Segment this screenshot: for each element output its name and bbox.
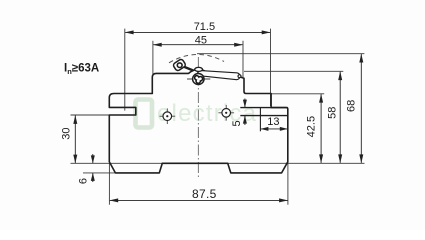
dimension 68 line bbox=[360, 54, 362, 163]
svg-text:6: 6 bbox=[78, 178, 90, 184]
svg-text:45: 45 bbox=[195, 35, 207, 47]
screw head crosshair ticks bbox=[187, 78, 210, 80]
dimension 87.5 line bbox=[110, 199, 288, 201]
svg-text:71.5: 71.5 bbox=[194, 21, 215, 33]
lever knob bbox=[172, 58, 186, 71]
svg-text:5: 5 bbox=[231, 120, 243, 126]
terminal screw right: ticks bbox=[218, 112, 234, 114]
extension line y=94.2 (42.5 top) bbox=[271, 93, 324, 95]
dimension 5 arrows (outside) bbox=[244, 99, 246, 108]
terminal screw left: circle bbox=[163, 112, 172, 121]
lever knob ring bbox=[177, 63, 182, 68]
right notch bottom line + 5-dim extension bbox=[240, 115, 287, 117]
extension line x=152.9 (45 left) bbox=[152, 41, 154, 75]
centerline (vertical axis) bbox=[197, 57, 199, 178]
body outline bbox=[109, 69, 287, 173]
svg-text:42.5: 42.5 bbox=[305, 116, 317, 137]
watermark logo bbox=[136, 100, 153, 128]
dimension 42.5 line bbox=[320, 94, 322, 163]
screw head bbox=[193, 74, 204, 85]
extension line y=71.3 (58 top) bbox=[244, 70, 343, 72]
dimension 13 line bbox=[261, 128, 288, 130]
svg-text:In≥63A: In≥63A bbox=[64, 62, 99, 76]
extension line y=172.9 (6 bottom) bbox=[83, 172, 116, 174]
right notch corner vertical + 13-dim extension bbox=[259, 108, 261, 132]
extension line x=109.4 (87.5 left) bbox=[108, 163, 110, 204]
extension line x=243 (45 right) bbox=[242, 41, 244, 77]
svg-text:87.5: 87.5 bbox=[192, 187, 217, 201]
dimension 58 line bbox=[339, 72, 341, 163]
extension line y=115.0 (30 top + slot bottom) bbox=[71, 114, 110, 116]
extension line y=163.3 baseline bbox=[71, 162, 365, 164]
extension line x=124.8 (71.5 left) bbox=[124, 29, 126, 111]
terminal screw right: circle bbox=[222, 109, 231, 118]
svg-text:13: 13 bbox=[267, 116, 279, 128]
extension line x=288 (87.5 right) bbox=[287, 162, 289, 205]
dimension 6 arrows (outside) bbox=[92, 154, 94, 163]
svg-text:58: 58 bbox=[327, 107, 339, 119]
terminal screw left: ticks bbox=[160, 115, 176, 117]
extension line y=53.7 (68 top) bbox=[197, 53, 364, 55]
right notch top line + 5-dim extension bbox=[240, 107, 287, 109]
dimension 30 line bbox=[74, 115, 76, 163]
svg-text:68: 68 bbox=[345, 100, 357, 112]
dimension 45 line bbox=[153, 44, 242, 46]
dimension 71.5 line bbox=[125, 31, 270, 33]
extension line x=269.8 (71.5 right) bbox=[270, 29, 272, 106]
lever arm pin bbox=[238, 75, 241, 78]
lever knob connector bbox=[184, 67, 194, 71]
dashed swing arc of lever bbox=[169, 54, 224, 62]
lever pivot nub bbox=[195, 67, 203, 71]
screw tri-lobe slot bbox=[195, 76, 203, 84]
svg-text:30: 30 bbox=[61, 127, 73, 139]
lever arm (right, horizontal) bbox=[197, 70, 240, 79]
